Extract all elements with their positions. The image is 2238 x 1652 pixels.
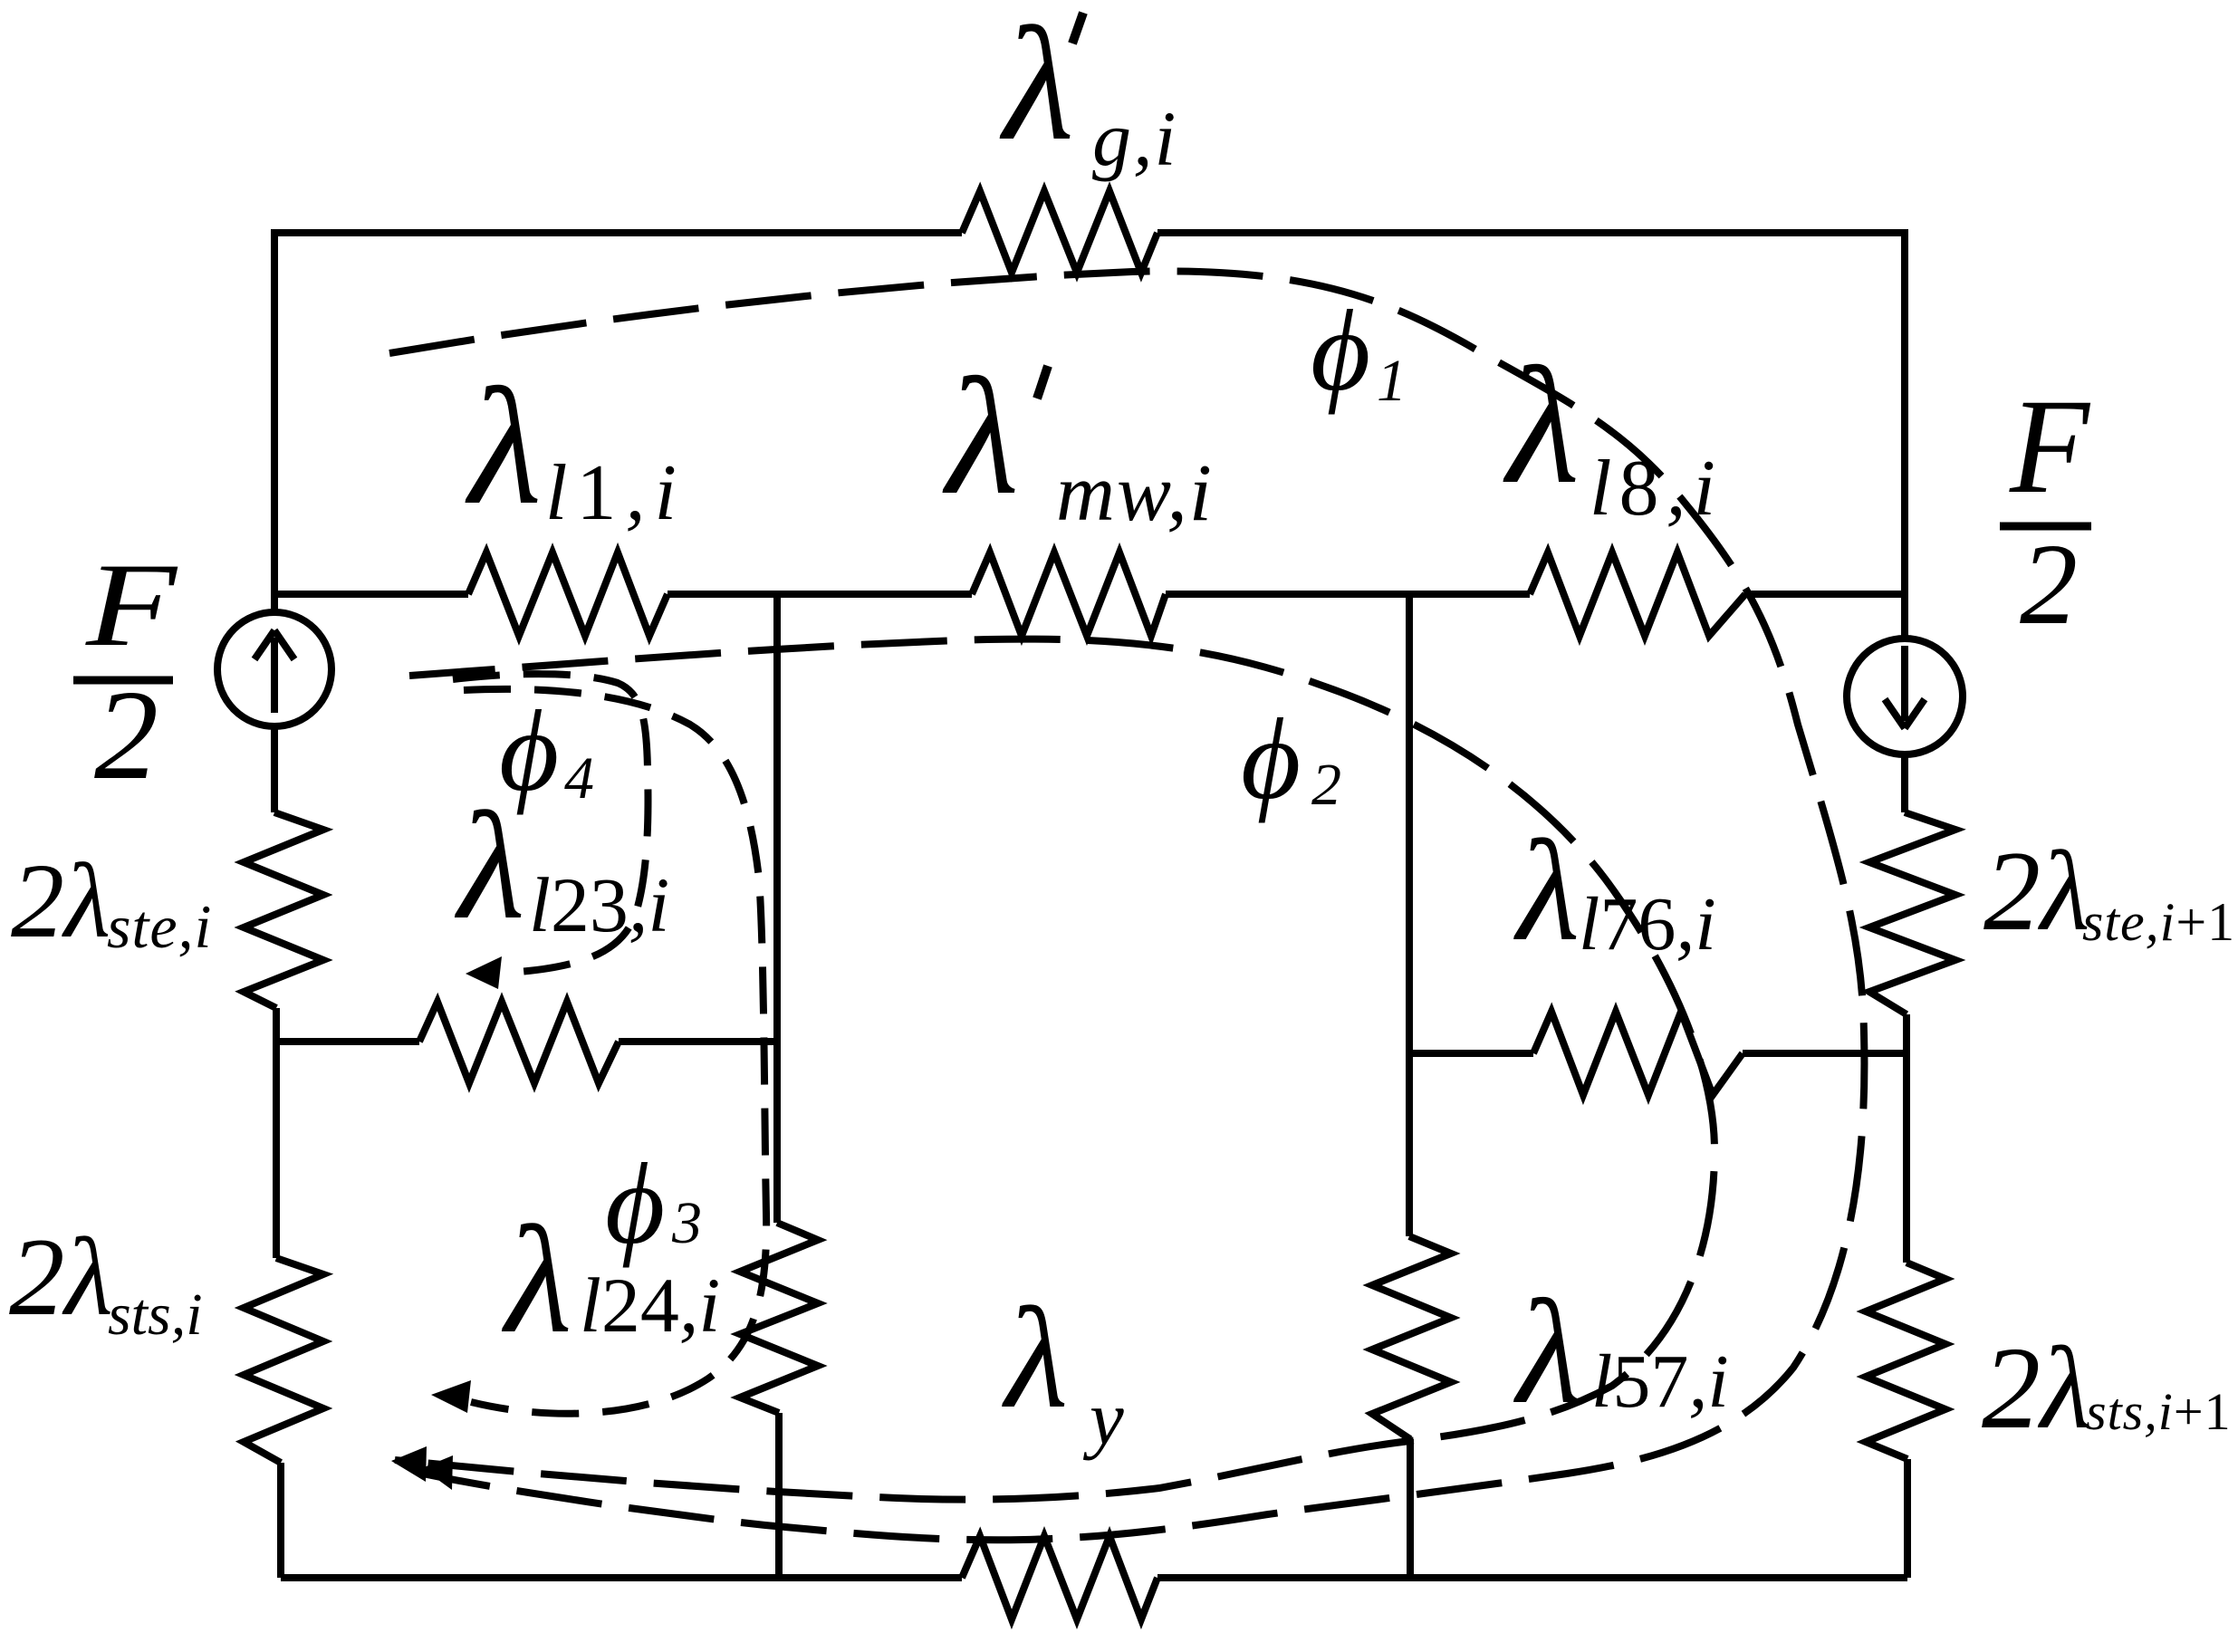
svg-text:ste,i: ste,i [107,892,212,961]
svg-text:sts,i: sts,i [108,1282,203,1348]
svg-text:l24,i: l24,i [580,1262,720,1349]
svg-text:2: 2 [2020,520,2078,648]
svg-text:2λ: 2λ [1983,829,2090,955]
svg-text:F: F [2009,371,2090,522]
svg-text:sts,i+1: sts,i+1 [2086,1382,2232,1441]
svg-text:2λ: 2λ [11,841,110,960]
svg-text:λ: λ [1513,810,1580,971]
svg-text:λ: λ [465,354,542,540]
svg-text:1: 1 [1377,348,1407,414]
svg-text:2: 2 [1311,752,1341,818]
svg-text:mw,i: mw,i [1056,448,1214,538]
svg-text:ϕ: ϕ [605,1139,665,1268]
svg-text:3: 3 [671,1190,702,1256]
svg-text:2λ: 2λ [1982,1323,2091,1454]
svg-text:λ: λ [999,0,1074,174]
svg-text:λ: λ [1002,1277,1068,1438]
svg-text:l8,i: l8,i [1590,445,1723,533]
svg-text:4: 4 [564,745,594,812]
svg-text:y: y [1082,1376,1124,1461]
svg-text:λ: λ [501,1195,572,1365]
svg-text:λ: λ [1503,333,1580,519]
svg-text:l76,i: l76,i [1579,882,1716,966]
svg-text:l1,i: l1,i [545,449,686,537]
svg-text:ϕ: ϕ [1241,695,1301,823]
svg-text:λ: λ [454,781,525,951]
svg-text:2λ: 2λ [9,1215,113,1339]
svg-text:l57,i: l57,i [1591,1340,1729,1424]
svg-text:l23,i: l23,i [529,861,669,948]
svg-text:ϕ: ϕ [1311,286,1370,415]
svg-text:g,i: g,i [1092,95,1177,182]
svg-text:λ: λ [942,344,1019,530]
svg-text:λ: λ [1513,1269,1581,1435]
svg-text:ste,i+1: ste,i+1 [2082,892,2235,952]
svg-text:2: 2 [94,663,158,806]
svg-text:F: F [85,538,178,671]
